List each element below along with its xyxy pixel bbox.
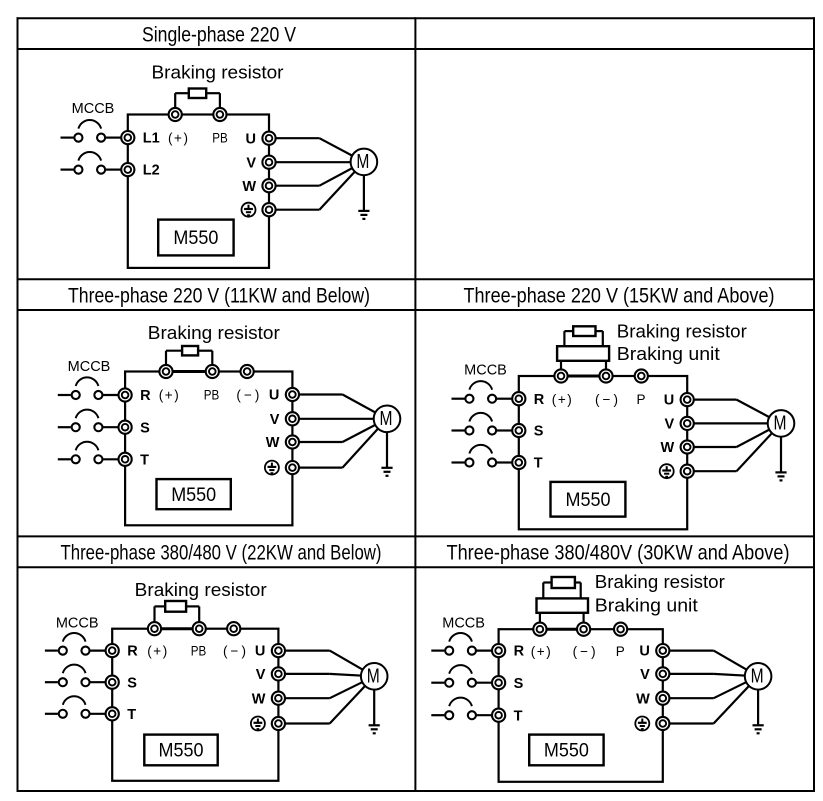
output terminal U (single-phase 220 V) [262,132,275,145]
svg-text:Three-phase 220 V (15KW and Ab: Three-phase 220 V (15KW and Above) [464,285,775,308]
motor M (three-phase 380/480 V 30KW) [745,663,772,690]
svg-text:V: V [246,155,256,171]
input terminal S (three-phase 380/480 V 30KW) [492,676,505,689]
svg-text:(−): (−) [223,643,246,658]
svg-text:U: U [664,393,674,409]
svg-text:(+): (+) [159,388,179,403]
svg-text:MCCB: MCCB [72,101,115,117]
label PB (three-phase 220 V 11KW) [204,388,220,403]
output terminal PE (three-phase 220 V 11KW) [286,461,299,474]
label "Braking resistor" (single-phase 220 V) [152,62,284,83]
wire W to motor (three-phase 220 V 11KW) [292,419,387,442]
drive enclosure box (three-phase 380/480 V 30KW) [499,629,663,782]
wire V to motor (three-phase 220 V 15KW) [687,422,781,424]
top terminal (-) (three-phase 380/480 V 22KW) [227,622,240,635]
wire V to motor (single-phase 220 V) [269,161,364,163]
output terminal PE (three-phase 380/480 V 30KW) [656,717,669,730]
label V (three-phase 220 V 11KW) [270,412,280,428]
svg-text:V: V [640,667,650,683]
svg-text:S: S [140,420,150,436]
label U (single-phase 220 V) [246,131,256,147]
output terminal W (single-phase 220 V) [262,179,275,192]
svg-text:R: R [534,392,545,408]
wire (+) terminal to braking resistor (three-phase 220 V 11KW) [166,351,182,372]
svg-text:MCCB: MCCB [464,362,507,378]
ground (motor) (three-phase 220 V 11KW) [381,419,392,476]
label T (three-phase 220 V 15KW) [534,456,543,472]
top terminal (-) (three-phase 220 V 15KW) [599,369,612,382]
svg-text:P: P [636,392,645,407]
svg-text:Braking resistor: Braking resistor [152,62,284,83]
input terminal T (three-phase 380/480 V 30KW) [492,709,505,722]
label W (single-phase 220 V) [242,179,256,195]
wire V to motor (three-phase 220 V 11KW) [292,418,387,420]
svg-text:M: M [356,151,369,173]
wire W to motor (three-phase 380/480 V 22KW) [278,676,374,698]
label MCCB (three-phase 220 V 11KW) [68,359,111,375]
top terminal (+) (single-phase 220 V) [169,108,182,121]
label (+) (single-phase 220 V) [168,130,188,145]
label (−) (three-phase 380/480 V 30KW) [573,644,596,659]
PE earth symbol (three-phase 220 V 15KW) [660,464,674,478]
label U (three-phase 220 V 15KW) [664,393,674,409]
wire DC bus segment (three-phase 380/480 V 30KW) [540,628,584,631]
svg-text:M550: M550 [159,741,204,762]
svg-text:Three-phase 220 V (11KW and Be: Three-phase 220 V (11KW and Below) [68,285,370,308]
label S (three-phase 220 V 15KW) [534,424,544,440]
output terminal U (three-phase 380/480 V 22KW) [272,644,285,657]
MCCB switch pole L2 (single-phase 220 V) [61,152,122,174]
svg-text:M: M [774,413,787,435]
output terminal PE (three-phase 220 V 15KW) [681,465,694,478]
svg-text:Single-phase 220 V: Single-phase 220 V [142,24,296,47]
label V (single-phase 220 V) [246,155,256,171]
top terminal PB (three-phase 220 V 11KW) [206,365,219,378]
drive enclosure box (three-phase 220 V 15KW) [519,376,687,529]
label W (three-phase 380/480 V 22KW) [252,691,266,707]
label (+) (three-phase 220 V 11KW) [159,388,179,403]
braking unit component (three-phase 380/480 V 30KW) [537,598,589,612]
input terminal R (three-phase 220 V 15KW) [512,392,525,405]
MCCB switch pole T (three-phase 220 V 11KW) [58,442,119,464]
label "Braking resistor" (three-phase 380/480 V 30KW) [595,571,725,592]
input terminal T (three-phase 220 V 11KW) [119,453,132,466]
input terminal R (three-phase 380/480 V 22KW) [106,644,119,657]
label "Braking unit" (three-phase 220 V 15KW) [617,343,720,364]
label PB (single-phase 220 V) [212,130,228,145]
svg-text:P: P [616,644,625,659]
output terminal V (three-phase 220 V 15KW) [681,417,694,430]
svg-text:PB: PB [191,643,207,658]
label "Braking unit" (three-phase 380/480 V 30KW) [595,594,698,615]
label "Braking resistor" (three-phase 380/480 V 22KW) [135,579,267,600]
label R (three-phase 220 V 11KW) [140,388,151,404]
label L2 (single-phase 220 V) [143,163,160,179]
label U (three-phase 380/480 V 22KW) [255,644,265,660]
MCCB switch pole S (three-phase 220 V 11KW) [58,410,119,432]
output terminal W (three-phase 220 V 15KW) [681,440,694,453]
wire PB terminal to braking resistor (single-phase 220 V) [206,93,220,114]
wire V to motor (three-phase 380/480 V 22KW) [278,674,374,676]
label S (three-phase 380/480 V 30KW) [514,676,524,692]
svg-text:(−): (−) [236,388,259,403]
svg-text:T: T [514,708,523,724]
label MCCB (three-phase 220 V 15KW) [464,362,507,378]
label V (three-phase 220 V 15KW) [665,417,675,433]
input terminal R (three-phase 220 V 11KW) [119,388,132,401]
wire W to motor (three-phase 380/480 V 30KW) [663,676,758,698]
label R (three-phase 220 V 15KW) [534,392,545,408]
wire DC bus segment (three-phase 380/480 V 22KW) [155,627,200,630]
MCCB switch pole S (three-phase 380/480 V 30KW) [431,665,492,687]
MCCB switch pole S (three-phase 220 V 15KW) [452,413,513,435]
MCCB switch pole T (three-phase 380/480 V 22KW) [45,696,106,718]
input terminal R (three-phase 380/480 V 30KW) [492,644,505,657]
wire PE to motor (single-phase 220 V) [269,162,364,210]
label (+) (three-phase 220 V 15KW) [552,392,572,407]
svg-text:V: V [665,417,675,433]
braking resistor component (three-phase 380/480 V 30KW) [552,577,575,588]
drive label M550 (three-phase 380/480 V 30KW) [529,735,603,766]
svg-text:(+): (+) [147,643,167,658]
output terminal U (three-phase 220 V 11KW) [286,388,299,401]
ground (motor) (three-phase 380/480 V 30KW) [753,676,764,733]
header "Three-phase 380/480V (30KW and Above)" [447,542,790,565]
wire PE to motor (three-phase 220 V 11KW) [292,419,387,468]
svg-text:M550: M550 [566,490,611,511]
header "Three-phase 220 V (15KW and Above)" [464,285,775,308]
label (−) (three-phase 220 V 11KW) [236,388,259,403]
svg-text:R: R [140,388,151,404]
PE earth symbol (three-phase 380/480 V 30KW) [635,717,649,731]
svg-text:W: W [661,440,675,456]
wire U to motor (three-phase 220 V 11KW) [292,395,387,419]
svg-text:W: W [266,435,280,451]
svg-text:Three-phase 380/480V (30KW and: Three-phase 380/480V (30KW and Above) [447,542,790,565]
header "Three-phase 220 V (11KW and Below)" [68,285,370,308]
output terminal W (three-phase 220 V 11KW) [286,435,299,448]
wire DC bus segment (three-phase 220 V 15KW) [561,375,606,378]
label R (three-phase 380/480 V 30KW) [514,644,525,660]
wire (+) terminal to braking resistor (single-phase 220 V) [175,93,189,114]
wires braking unit to (+) and (-) terminals (three-phase 220 V 15KW) [561,361,606,376]
svg-text:R: R [514,644,525,660]
drive enclosure box (three-phase 380/480 V 22KW) [112,629,278,781]
svg-text:T: T [140,452,149,468]
wires braking resistor to braking unit (three-phase 380/480 V 30KW) [543,583,580,599]
PE earth symbol (three-phase 380/480 V 22KW) [251,717,265,731]
label W (three-phase 380/480 V 30KW) [636,691,650,707]
input terminal S (three-phase 220 V 11KW) [119,421,132,434]
MCCB switch pole S (three-phase 380/480 V 22KW) [45,665,106,687]
svg-text:W: W [636,691,650,707]
ground (motor) (three-phase 220 V 15KW) [775,423,786,480]
label V (three-phase 380/480 V 30KW) [640,667,650,683]
wires braking resistor to braking unit (three-phase 220 V 15KW) [564,331,602,346]
PE earth symbol (three-phase 220 V 11KW) [265,461,279,475]
svg-text:Braking resistor: Braking resistor [135,579,267,600]
svg-text:MCCB: MCCB [68,359,111,375]
svg-text:L2: L2 [143,163,160,179]
svg-text:S: S [514,676,524,692]
ground (motor) (single-phase 220 V) [358,162,369,219]
svg-text:S: S [127,675,137,691]
output terminal V (three-phase 220 V 11KW) [286,412,299,425]
top terminal (-) (three-phase 380/480 V 30KW) [577,623,590,636]
MCCB switch pole R (three-phase 380/480 V 22KW) [45,633,106,655]
braking resistor component (single-phase 220 V) [189,89,206,99]
wire DC bus segment (three-phase 220 V 11KW) [166,370,212,373]
input terminal T (three-phase 220 V 15KW) [512,456,525,469]
output terminal W (three-phase 380/480 V 30KW) [656,692,669,705]
svg-text:(+): (+) [168,130,188,145]
label L1 (single-phase 220 V) [143,131,160,147]
drive label M550 (single-phase 220 V) [158,220,233,256]
output terminal PE (single-phase 220 V) [262,203,275,216]
label MCCB (three-phase 380/480 V 22KW) [56,615,99,631]
drive label M550 (three-phase 380/480 V 22KW) [144,735,217,766]
svg-text:Braking unit: Braking unit [595,594,698,615]
wire PB terminal to braking resistor (three-phase 380/480 V 22KW) [186,606,199,628]
svg-text:MCCB: MCCB [56,615,99,631]
output terminal V (single-phase 220 V) [262,156,275,169]
drive enclosure box (three-phase 220 V 11KW) [125,372,292,526]
top terminal (+) (three-phase 220 V 15KW) [554,369,567,382]
header "Single-phase 220 V" [142,24,296,47]
wires braking unit to (+) and (-) terminals (three-phase 380/480 V 30KW) [540,613,584,629]
svg-text:U: U [255,644,265,660]
label T (three-phase 380/480 V 22KW) [127,707,136,723]
svg-text:Braking unit: Braking unit [617,343,720,364]
wire V to motor (three-phase 380/480 V 30KW) [663,674,758,676]
svg-text:MCCB: MCCB [442,615,485,631]
svg-text:W: W [252,691,266,707]
MCCB switch pole T (three-phase 220 V 15KW) [452,445,513,467]
label PB (three-phase 380/480 V 22KW) [191,643,207,658]
svg-text:Three-phase 380/480 V (22KW an: Three-phase 380/480 V (22KW and Below) [61,542,382,565]
label T (three-phase 220 V 11KW) [140,452,149,468]
svg-text:U: U [246,131,256,147]
braking resistor component (three-phase 220 V 11KW) [182,346,198,355]
motor M (three-phase 220 V 11KW) [374,406,401,433]
label "Braking resistor" (three-phase 220 V 15KW) [617,320,747,341]
motor M (three-phase 220 V 15KW) [768,410,795,437]
top terminal (+) (three-phase 380/480 V 30KW) [533,623,546,636]
top terminal PB (three-phase 380/480 V 22KW) [193,622,206,635]
input terminal S (three-phase 380/480 V 22KW) [106,676,119,689]
input terminal T (three-phase 380/480 V 22KW) [106,707,119,720]
MCCB switch pole R (three-phase 220 V 15KW) [452,381,513,403]
label W (three-phase 220 V 15KW) [661,440,675,456]
label "Braking resistor" (three-phase 220 V 11KW) [148,322,280,343]
output terminal V (three-phase 380/480 V 30KW) [656,667,669,680]
svg-text:M550: M550 [171,485,216,506]
top terminal (+) (three-phase 380/480 V 22KW) [148,622,161,635]
svg-text:PB: PB [204,388,220,403]
wire U to motor (three-phase 380/480 V 30KW) [663,651,758,677]
label P (three-phase 220 V 15KW) [636,392,645,407]
output terminal U (three-phase 220 V 15KW) [681,393,694,406]
label (+) (three-phase 380/480 V 22KW) [147,643,167,658]
output terminal V (three-phase 380/480 V 22KW) [272,667,285,680]
wire U to motor (three-phase 380/480 V 22KW) [278,651,374,677]
wire PE to motor (three-phase 380/480 V 30KW) [663,676,758,723]
svg-text:T: T [127,707,136,723]
label W (three-phase 220 V 11KW) [266,435,280,451]
wire (+) terminal to braking resistor (three-phase 380/480 V 22KW) [155,606,166,628]
motor M (single-phase 220 V) [351,149,378,176]
drive label M550 (three-phase 220 V 11KW) [157,479,231,509]
label S (three-phase 380/480 V 22KW) [127,675,137,691]
label R (three-phase 380/480 V 22KW) [127,644,138,660]
motor M (three-phase 380/480 V 22KW) [361,663,388,690]
ground (motor) (three-phase 380/480 V 22KW) [369,676,380,733]
input terminal L1 (single-phase 220 V) [121,131,134,144]
wire U to motor (three-phase 220 V 15KW) [687,400,781,424]
svg-text:L1: L1 [143,131,160,147]
wire W to motor (single-phase 220 V) [269,162,364,186]
output terminal PE (three-phase 380/480 V 22KW) [272,717,285,730]
output terminal U (three-phase 380/480 V 30KW) [656,644,669,657]
top terminal PB (single-phase 220 V) [213,108,226,121]
svg-text:M: M [367,665,380,687]
PE earth symbol (single-phase 220 V) [242,203,256,217]
label U (three-phase 380/480 V 30KW) [639,644,649,660]
label S (three-phase 220 V 11KW) [140,420,150,436]
braking resistor component (three-phase 380/480 V 22KW) [165,601,186,612]
svg-text:M550: M550 [544,741,589,762]
svg-text:(+): (+) [552,392,572,407]
MCCB switch pole R (three-phase 380/480 V 30KW) [431,633,492,655]
svg-text:Braking resistor: Braking resistor [617,320,747,341]
svg-text:V: V [256,667,266,683]
input terminal S (three-phase 220 V 15KW) [512,424,525,437]
braking unit component (three-phase 220 V 15KW) [557,346,609,361]
drive enclosure box (single-phase 220 V) [128,115,269,268]
svg-text:V: V [270,412,280,428]
svg-text:Braking resistor: Braking resistor [148,322,280,343]
wire W to motor (three-phase 220 V 15KW) [687,423,781,447]
svg-text:(+): (+) [531,644,551,659]
drive label M550 (three-phase 220 V 15KW) [551,482,626,517]
svg-text:PB: PB [212,130,228,145]
braking resistor component (three-phase 220 V 15KW) [573,326,595,336]
label MCCB (three-phase 380/480 V 30KW) [442,615,485,631]
label U (three-phase 220 V 11KW) [269,388,279,404]
svg-text:M550: M550 [173,228,218,249]
svg-text:(−): (−) [595,392,618,407]
top terminal (-) (three-phase 220 V 11KW) [241,365,254,378]
label V (three-phase 380/480 V 22KW) [256,667,266,683]
label P (three-phase 380/480 V 30KW) [616,644,625,659]
svg-text:U: U [269,388,279,404]
label (−) (three-phase 220 V 15KW) [595,392,618,407]
svg-text:M: M [751,665,764,687]
wire PE to motor (three-phase 380/480 V 22KW) [278,676,374,723]
top terminal P (three-phase 220 V 15KW) [635,369,648,382]
header "Three-phase 380/480 V (22KW and Below)" [61,542,382,565]
MCCB switch pole L1 (single-phase 220 V) [61,120,122,142]
top terminal P (three-phase 380/480 V 30KW) [614,623,627,636]
wire U to motor (single-phase 220 V) [269,138,364,162]
label (−) (three-phase 380/480 V 22KW) [223,643,246,658]
svg-text:M: M [380,408,393,430]
MCCB switch pole R (three-phase 220 V 11KW) [58,377,119,399]
output terminal W (three-phase 380/480 V 22KW) [272,692,285,705]
label T (three-phase 380/480 V 30KW) [514,708,523,724]
svg-text:S: S [534,424,544,440]
svg-text:Braking resistor: Braking resistor [595,571,725,592]
wire PE to motor (three-phase 220 V 15KW) [687,423,781,471]
label MCCB (single-phase 220 V) [72,101,115,117]
svg-text:T: T [534,456,543,472]
svg-text:W: W [242,179,256,195]
svg-text:(−): (−) [573,644,596,659]
svg-text:U: U [639,644,649,660]
wire PB terminal to braking resistor (three-phase 220 V 11KW) [198,351,212,372]
MCCB switch pole T (three-phase 380/480 V 30KW) [431,698,492,720]
label (+) (three-phase 380/480 V 30KW) [531,644,551,659]
svg-text:R: R [127,644,138,660]
input terminal L2 (single-phase 220 V) [121,163,134,176]
top terminal (+) (three-phase 220 V 11KW) [159,365,172,378]
